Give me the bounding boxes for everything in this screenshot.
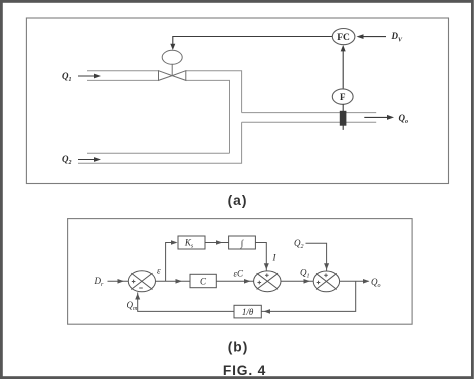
valve V1 actuator — [162, 50, 182, 75]
wire S1 to block C — [156, 279, 191, 284]
svg-text:FIG. 4: FIG. 4 — [223, 363, 266, 378]
wire branch epsilon up to Ks — [166, 240, 178, 281]
node Q2b label — [294, 238, 304, 250]
wire S3 to Qo output — [340, 279, 370, 284]
node Qob label — [371, 277, 381, 289]
wire Q1 inlet arrow — [78, 74, 101, 79]
sensor F — [332, 89, 353, 104]
wire Q1 pipe top wall — [87, 71, 242, 113]
caption (b) — [228, 340, 249, 355]
wire Q2b to summer S3 — [306, 243, 330, 271]
svg-text:(b): (b) — [228, 340, 249, 355]
block integrator — [229, 236, 256, 249]
svg-text:ε: ε — [157, 266, 161, 276]
wire Dr to summer S1 — [108, 279, 129, 284]
caption (a) — [228, 193, 248, 208]
wire Q2 pipe top wall — [87, 152, 230, 154]
node Q1 label — [62, 71, 72, 83]
node Qo label — [399, 113, 409, 125]
block C — [190, 274, 216, 287]
summer S3 — [313, 271, 339, 292]
svg-text:εC: εC — [234, 269, 245, 279]
svg-text:FC: FC — [337, 33, 350, 43]
summer S2 — [254, 271, 281, 292]
controller FC — [332, 28, 355, 44]
block 1/theta — [234, 305, 261, 318]
wire Qo outlet arrow — [364, 115, 394, 120]
wire S2 to summer S3 — [281, 279, 313, 284]
wire Q2 pipe right wall — [78, 122, 242, 163]
wire Dv to FC — [357, 34, 387, 39]
wire feedback down and to block theta — [261, 281, 355, 313]
wire outlet pipe bottom wall — [242, 121, 377, 123]
box part (a) — [26, 18, 448, 184]
node epsilonC label — [234, 269, 245, 279]
node epsilon label — [157, 266, 161, 276]
sensor element tap line — [342, 104, 344, 130]
svg-text:F: F — [340, 92, 346, 102]
svg-text:(a): (a) — [228, 193, 248, 208]
wire Q2 inlet arrow — [78, 157, 101, 162]
svg-text:1/θ: 1/θ — [242, 307, 254, 317]
node Q1b label — [300, 268, 310, 280]
wire Q1 pipe bottom wall — [87, 80, 230, 153]
summer S1 — [128, 271, 155, 292]
wire FC to valve — [170, 37, 332, 51]
wire outlet pipe top wall — [242, 112, 377, 114]
wire C to summer S2 — [216, 279, 253, 284]
node Dv label — [391, 31, 404, 44]
node Qm label — [127, 300, 139, 312]
box part (b) — [68, 219, 413, 325]
node Q2 label — [62, 154, 72, 166]
svg-text:C: C — [200, 277, 207, 287]
valve V1 body — [159, 71, 186, 81]
wire integrator to summer S2 — [255, 243, 268, 271]
caption FIG. 4 — [223, 363, 266, 378]
sensor element orifice bar — [340, 111, 347, 126]
node I label — [272, 253, 277, 263]
wire F to FC — [341, 45, 346, 89]
wire theta to summer S1 — [135, 292, 234, 311]
wire Ks to integrator — [205, 240, 229, 245]
block Ks — [178, 236, 205, 250]
node Dr label — [94, 276, 105, 288]
